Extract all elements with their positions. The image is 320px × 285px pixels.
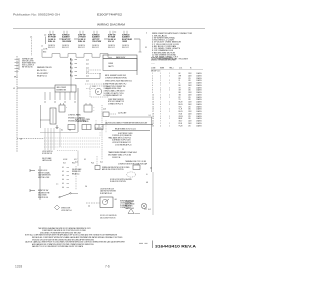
small diamond component xyxy=(55,205,60,210)
wire L2 drop xyxy=(45,37,47,45)
svg-text:TN: TN xyxy=(179,99,181,101)
svg-text:OVEN: OVEN xyxy=(108,63,114,65)
svg-text:RD-6: RD-6 xyxy=(72,163,75,165)
convection motor text xyxy=(118,162,147,165)
svg-text:2-16: 2-16 xyxy=(103,109,106,111)
svg-text:4-14: 4-14 xyxy=(86,75,89,77)
thermal fuse text xyxy=(125,160,146,163)
svg-text:16V: 16V xyxy=(188,109,191,111)
triangle symbol xyxy=(128,209,134,214)
svg-text:12V: 12V xyxy=(188,97,191,99)
svg-text:2-1 BK: 2-1 BK xyxy=(43,49,47,51)
svg-text:4-15: 4-15 xyxy=(86,80,89,82)
svg-text:OR-W: OR-W xyxy=(179,116,184,118)
wire L2 horizontal dashed xyxy=(17,138,44,140)
svg-text:10-2: 10-2 xyxy=(148,209,151,211)
svg-text:12V: 12V xyxy=(188,125,191,127)
svg-text:P-24: P-24 xyxy=(91,163,94,165)
svg-text:PK: PK xyxy=(179,97,181,99)
small box xyxy=(95,166,100,170)
svg-text:21: 21 xyxy=(152,121,154,123)
svg-text:LEFT FRT: LEFT FRT xyxy=(92,39,100,41)
component box: grill element xyxy=(55,85,76,92)
lamp circle xyxy=(141,203,147,209)
svg-text:OVEN LIGHT: OVEN LIGHT xyxy=(125,201,134,203)
connector pin stack P labels xyxy=(70,59,77,77)
component box B2 xyxy=(84,105,92,112)
svg-text:BK-8: BK-8 xyxy=(43,51,46,53)
svg-text:1700-2700W: 1700-2700W xyxy=(92,41,102,43)
svg-text:1200-2500W: 1200-2500W xyxy=(62,41,72,43)
svg-text:120V: 120V xyxy=(188,121,192,123)
harness L bend xyxy=(57,150,78,152)
component box top row 2 xyxy=(62,34,72,43)
svg-text:4-10: 4-10 xyxy=(93,86,96,88)
svg-text:2-6 BK P-4: 2-6 BK P-4 xyxy=(122,45,129,47)
svg-text:10-2: 10-2 xyxy=(100,162,103,164)
EOC text block xyxy=(108,133,133,147)
svg-text:7-6: 7-6 xyxy=(105,264,110,268)
svg-text:16V: 16V xyxy=(188,118,191,120)
svg-text:9 BR BROWN MOTOR: 9 BR BROWN MOTOR xyxy=(152,52,176,54)
wire between top boxes xyxy=(59,38,62,40)
svg-text:17: 17 xyxy=(152,111,154,113)
monitor switch text xyxy=(38,190,49,199)
svg-text:12V: 12V xyxy=(188,87,191,89)
wire to text xyxy=(40,119,50,121)
svg-text:CODE: CODE xyxy=(151,68,155,70)
svg-text:4-12: 4-12 xyxy=(86,67,89,69)
wire from hi-limit to right xyxy=(110,116,152,118)
svg-text:POSITION 2-8: POSITION 2-8 xyxy=(38,197,48,199)
dotted vertical wire center xyxy=(101,105,103,160)
svg-text:BROIL ELEMENT 4000W 240V: BROIL ELEMENT 4000W 240V xyxy=(105,75,126,77)
svg-text:SURF SW: SURF SW xyxy=(48,35,56,37)
svg-text:BK-W: BK-W xyxy=(179,102,184,104)
svg-text:TN-W: TN-W xyxy=(179,125,183,127)
header rule xyxy=(13,28,205,30)
svg-text:120V: 120V xyxy=(188,111,192,113)
svg-text:8-2: 8-2 xyxy=(61,130,63,132)
component box top row 4 xyxy=(92,34,102,43)
component box top row 5 xyxy=(108,35,116,43)
cam inside xyxy=(102,199,107,204)
svg-text:ELECTRONIC OVEN: ELECTRONIC OVEN xyxy=(118,133,132,135)
wire chart table xyxy=(151,68,203,128)
door lock motor text xyxy=(38,170,51,179)
component box top row 6 xyxy=(122,34,133,43)
svg-text:RD-8 9-12: RD-8 9-12 xyxy=(122,47,129,49)
svg-text:RD-8 9-12: RD-8 9-12 xyxy=(48,47,55,49)
dash-dot wire fan xyxy=(86,88,96,90)
wire down from pin comb xyxy=(70,58,72,92)
svg-text:2-6 BK P-4: 2-6 BK P-4 xyxy=(48,45,55,47)
svg-text:6-4: 6-4 xyxy=(62,179,64,181)
svg-text:WIRE: WIRE xyxy=(160,68,164,70)
svg-text:INF SW 8-2 RD: INF SW 8-2 RD xyxy=(22,66,34,68)
svg-text:RD-8 9-12: RD-8 9-12 xyxy=(62,47,69,49)
svg-text:16V: 16V xyxy=(188,90,191,92)
svg-text:GRILL 2800W: GRILL 2800W xyxy=(57,87,67,89)
svg-text:4-8: 4-8 xyxy=(115,199,117,201)
termination mark 1 xyxy=(30,170,35,172)
right vertical wire xyxy=(152,172,154,215)
feeder bus line with connector bumps xyxy=(42,49,112,57)
label row mid xyxy=(63,159,94,165)
svg-text:2-4: 2-4 xyxy=(149,115,151,117)
svg-text:240V: 240V xyxy=(188,85,192,87)
table heading lines xyxy=(151,57,176,65)
svg-text:WIRING SHOWN WITH DOOR CLOSED: WIRING SHOWN WITH DOOR CLOSED xyxy=(102,167,130,169)
dashed interconnect wires xyxy=(86,69,101,71)
svg-text:6-2 Y: 6-2 Y xyxy=(74,159,77,161)
dash marks left of part number xyxy=(139,242,143,244)
svg-text:13: 13 xyxy=(152,102,154,104)
svg-text:E30GF74HPS2: E30GF74HPS2 xyxy=(97,13,122,17)
switch contact drawing xyxy=(60,194,70,198)
pin stack ticks xyxy=(70,58,72,76)
svg-text:+: + xyxy=(66,107,67,109)
transformer box T1 xyxy=(50,108,56,124)
svg-text:2-6 BK P-4: 2-6 BK P-4 xyxy=(108,45,115,47)
wire L1 horizontal xyxy=(17,87,55,89)
cooling fan dashed box xyxy=(90,86,108,97)
svg-text:x x: x x xyxy=(56,184,58,186)
svg-text:LOCK MOTOR 120V: LOCK MOTOR 120V xyxy=(100,189,114,191)
svg-text:W-4: W-4 xyxy=(63,163,66,165)
vert dotted line xyxy=(75,166,77,190)
svg-text:OVEN DOOR: OVEN DOOR xyxy=(61,208,71,210)
oven notes text xyxy=(105,75,127,79)
svg-text:Publication No: 09052940 GH: Publication No: 09052940 GH xyxy=(13,13,60,17)
svg-text:2-2 BK-12: 2-2 BK-12 xyxy=(78,39,85,41)
svg-text:RD-8 9-12: RD-8 9-12 xyxy=(78,47,85,49)
svg-text:2-6 BK P-4: 2-6 BK P-4 xyxy=(78,45,85,47)
svg-text:2-4: 2-4 xyxy=(74,102,76,104)
vertical wire to EOC xyxy=(59,128,61,147)
svg-text:316443410 REV.A: 316443410 REV.A xyxy=(155,244,196,248)
svg-text:LT FRONT: LT FRONT xyxy=(78,37,86,39)
svg-text:INTERLOCK: INTERLOCK xyxy=(72,171,81,173)
svg-text:16V: 16V xyxy=(188,80,191,82)
svg-text:10: 10 xyxy=(152,94,154,96)
svg-text:RD 4-8 SUPPLY: RD 4-8 SUPPLY xyxy=(37,73,48,75)
svg-text:5 Y YELLOW DOOR LOCK: 5 Y YELLOW DOOR LOCK xyxy=(152,44,180,46)
door lock mechanism box xyxy=(100,197,113,208)
svg-text:ELEMENT: ELEMENT xyxy=(62,37,70,39)
svg-text:12V: 12V xyxy=(188,106,191,108)
svg-text:SHOWN IN THE: SHOWN IN THE xyxy=(38,192,49,194)
vertical wire door lock xyxy=(39,166,41,200)
svg-text:SURF SW: SURF SW xyxy=(78,35,86,37)
component box top row 1 xyxy=(48,35,56,43)
svg-text:4-13: 4-13 xyxy=(86,71,89,73)
svg-text:PK-B: PK-B xyxy=(179,123,183,125)
svg-text:ELECTRONIC OVEN: ELECTRONIC OVEN xyxy=(75,119,90,121)
svg-text:COMPONENTS SHOWN IN OFF POSITI: COMPONENTS SHOWN IN OFF POSITION DOOR CL… xyxy=(42,230,87,232)
svg-text:RIGHT FRT: RIGHT FRT xyxy=(62,39,71,41)
small box xyxy=(133,165,140,170)
svg-text:16: 16 xyxy=(152,109,154,111)
svg-text:SWITCH 6-2 BK: SWITCH 6-2 BK xyxy=(38,177,50,179)
svg-text:-D: -D xyxy=(146,174,148,176)
svg-text:LOCK UNIT 9-6: LOCK UNIT 9-6 xyxy=(61,210,72,212)
svg-text:6-6: 6-6 xyxy=(62,187,64,189)
svg-text:23: 23 xyxy=(152,125,154,127)
svg-text:LOCK SWITCH: LOCK SWITCH xyxy=(42,151,52,153)
svg-text:2-6 BK P-4: 2-6 BK P-4 xyxy=(92,45,99,47)
svg-text:MONITOR SW: MONITOR SW xyxy=(38,190,49,192)
lock motor cam text xyxy=(100,189,116,195)
svg-text:16V: 16V xyxy=(188,99,191,101)
svg-text:1318: 1318 xyxy=(15,264,22,268)
sensor text block xyxy=(108,99,124,105)
dashed oval component xyxy=(127,172,136,177)
svg-text:8-2: 8-2 xyxy=(84,159,86,161)
svg-text:240V: 240V xyxy=(188,113,192,115)
svg-text:SGL 9-2: SGL 9-2 xyxy=(108,41,114,43)
svg-text:+: + xyxy=(94,110,95,112)
ground symbol 1 xyxy=(56,125,59,129)
left supply bus wire xyxy=(16,56,18,152)
svg-text:4: 4 xyxy=(146,33,147,35)
wire comb below grill xyxy=(45,92,75,100)
svg-text:L1: L1 xyxy=(13,88,15,90)
monitor switch assembly text xyxy=(120,201,133,210)
svg-text:BK-4 W-2 P-6: BK-4 W-2 P-6 xyxy=(37,70,47,72)
long vertical wire center-left xyxy=(77,88,79,132)
component box B1 xyxy=(59,105,65,112)
terminal marks above boxes xyxy=(49,31,51,34)
svg-text:DOOR LOCK SWITCH SHOWN: DOOR LOCK SWITCH SHOWN xyxy=(110,179,132,181)
svg-text:SURF SW: SURF SW xyxy=(108,35,116,37)
vert dotted line 2 xyxy=(96,156,98,166)
svg-text:4 VI VIOLET OVEN SENSOR: 4 VI VIOLET OVEN SENSOR xyxy=(152,42,182,44)
wire L1 drop xyxy=(31,39,33,57)
vertical wire bundle xyxy=(45,128,54,150)
svg-text:RD-W: RD-W xyxy=(179,104,184,106)
svg-text:RD-8 9-12: RD-8 9-12 xyxy=(92,47,99,49)
svg-text:240V: 240V xyxy=(188,94,192,96)
svg-text:BU-W: BU-W xyxy=(179,111,184,113)
svg-text:ELEMENT: ELEMENT xyxy=(122,37,130,39)
transformer text xyxy=(108,151,137,156)
svg-text:120V: 120V xyxy=(188,92,192,94)
svg-text:6-3: 6-3 xyxy=(62,175,64,177)
svg-text:DOOR LOCK SHOWN IN: DOOR LOCK SHOWN IN xyxy=(100,215,116,217)
svg-text:WOK 2-4 BK P-8: WOK 2-4 BK P-8 xyxy=(22,64,34,66)
EOC label left xyxy=(75,119,90,123)
wire drop right of row xyxy=(139,39,141,52)
svg-text:UNLOCKED POSITION: UNLOCKED POSITION xyxy=(100,218,115,220)
svg-text:6-4: 6-4 xyxy=(69,130,71,132)
label: control panel ground xyxy=(68,114,86,123)
svg-text:14: 14 xyxy=(152,104,154,106)
svg-text:DOOR LOCK: DOOR LOCK xyxy=(38,170,48,172)
svg-text:4-11: 4-11 xyxy=(86,63,89,65)
svg-text:240V: 240V xyxy=(188,104,192,106)
legend block left: warmer zone switch xyxy=(37,66,52,78)
svg-text:3 RD RED L2 240V: 3 RD RED L2 240V xyxy=(152,40,175,42)
svg-text:18: 18 xyxy=(152,113,154,115)
svg-text:120V: 120V xyxy=(188,73,192,75)
svg-text:22: 22 xyxy=(152,123,154,125)
wire stub right of top row xyxy=(134,38,140,40)
svg-text:6-1: 6-1 xyxy=(62,167,64,169)
cooling fan motor circle xyxy=(95,88,101,94)
svg-text:2-2: 2-2 xyxy=(122,149,124,151)
self clean interlock text xyxy=(72,168,81,175)
svg-text:6-2: 6-2 xyxy=(62,171,64,173)
svg-text:4-4 HI-LIMIT: 4-4 HI-LIMIT xyxy=(118,113,127,115)
svg-text:9-2: 9-2 xyxy=(145,47,147,49)
svg-text:GY-B: GY-B xyxy=(179,113,183,115)
oven cavity outline xyxy=(103,58,137,70)
svg-text:2-4: 2-4 xyxy=(88,206,90,208)
svg-text:UNLOCKED: UNLOCKED xyxy=(38,195,47,197)
svg-text:12V: 12V xyxy=(188,116,191,118)
svg-text:20: 20 xyxy=(152,118,154,120)
bake element long box xyxy=(103,55,137,58)
svg-text:2-6: 2-6 xyxy=(85,186,87,188)
small double box lower 1 xyxy=(68,125,75,130)
vertical wire right of EOC xyxy=(151,117,153,172)
svg-text:MF-1: MF-1 xyxy=(14,77,18,79)
svg-text:GN: GN xyxy=(179,94,181,96)
svg-text:L1: L1 xyxy=(41,46,43,48)
svg-text:4-8: 4-8 xyxy=(146,182,148,184)
svg-text:2-4: 2-4 xyxy=(54,102,56,104)
svg-text:ELEMENT BK: ELEMENT BK xyxy=(57,90,66,92)
svg-text:6-5: 6-5 xyxy=(62,183,64,185)
svg-text:4-1 BK: 4-1 BK xyxy=(63,159,67,161)
svg-text:COL: COL xyxy=(179,68,182,70)
door position note xyxy=(102,167,130,171)
door lock switch note xyxy=(110,179,132,183)
svg-text:2-4: 2-4 xyxy=(114,32,116,34)
svg-text:WH: WH xyxy=(179,75,182,77)
wire labels mid column xyxy=(86,59,89,82)
svg-text:19: 19 xyxy=(152,116,154,118)
svg-text:DOOR SW 2-8: DOOR SW 2-8 xyxy=(42,153,52,155)
svg-text:10-2: 10-2 xyxy=(75,162,78,164)
svg-text:240V: 240V xyxy=(188,75,192,77)
svg-text:2 CONVECTION CONVERT 25F: 2 CONVECTION CONVERT 25F xyxy=(104,86,126,88)
svg-text:240V: 240V xyxy=(188,123,192,125)
svg-text:12V: 12V xyxy=(188,78,191,80)
svg-text:2-4: 2-4 xyxy=(64,102,66,104)
svg-text:2-4: 2-4 xyxy=(44,102,46,104)
wire between top boxes xyxy=(74,38,78,40)
svg-text:120V: 120V xyxy=(188,83,192,85)
component box top row 3 xyxy=(78,35,86,43)
svg-text:BU: BU xyxy=(179,85,181,87)
bottom notes paragraph xyxy=(25,227,126,248)
svg-text:YL: YL xyxy=(179,83,181,85)
svg-text:P-30 P-31: P-30 P-31 xyxy=(95,128,102,130)
svg-text:SWITCH 6-8 RR: SWITCH 6-8 RR xyxy=(22,60,34,62)
wire between top boxes xyxy=(104,38,108,40)
svg-text:IN UNLOCK POSITION: IN UNLOCK POSITION xyxy=(110,181,126,183)
lock switch label xyxy=(42,151,52,155)
svg-text:2-6 BK P-4: 2-6 BK P-4 xyxy=(62,45,69,47)
svg-text:- - - -: - - - - xyxy=(151,62,155,64)
self clean latch label xyxy=(42,157,52,162)
svg-text:12: 12 xyxy=(152,99,154,101)
svg-text:THK-1: THK-1 xyxy=(169,68,174,70)
connecting line under ground row xyxy=(40,132,78,134)
svg-text:11: 11 xyxy=(152,97,154,99)
small double box lower 2 xyxy=(82,125,91,130)
comb labels xyxy=(44,102,76,104)
bracket line xyxy=(18,58,20,70)
svg-text:10 GN GREEN GROUND: 10 GN GREEN GROUND xyxy=(152,54,177,56)
svg-text:WIRING DIAGRAM: WIRING DIAGRAM xyxy=(97,23,125,27)
svg-text:GY: GY xyxy=(179,87,181,89)
svg-text:ELEMENT: ELEMENT xyxy=(92,37,100,39)
svg-text:1200W: 1200W xyxy=(122,41,128,43)
svg-text:UNLESS OTHERWISE SPECIFIED: UNLESS OTHERWISE SPECIFIED xyxy=(151,60,176,62)
svg-text:BK: BK xyxy=(179,73,181,75)
svg-text:4-2: 4-2 xyxy=(150,168,152,170)
horizontal dashed harness lines xyxy=(44,138,100,147)
svg-text:120V: 120V xyxy=(188,102,192,104)
svg-text:4-10: 4-10 xyxy=(86,59,89,61)
small component box xyxy=(103,112,109,117)
svg-text:GN-Y: GN-Y xyxy=(179,121,183,123)
notes list top right xyxy=(152,32,193,60)
divider tick xyxy=(152,241,154,249)
wire horizontal lower xyxy=(75,78,100,80)
svg-text:15: 15 xyxy=(152,106,154,108)
svg-text:GROUP 1 2 3: GROUP 1 2 3 xyxy=(151,71,160,73)
dashed wire lower xyxy=(85,83,105,85)
svg-text:+: + xyxy=(94,107,95,109)
dotted verticals right of ground row xyxy=(95,120,97,124)
wire label stack xyxy=(62,167,69,189)
wire stubs left of block xyxy=(15,58,19,60)
svg-text:IS: IS xyxy=(190,68,191,70)
oven light text xyxy=(125,201,135,210)
svg-text:VI-B: VI-B xyxy=(179,106,182,108)
small double box lower 3 xyxy=(95,125,103,130)
legend block left: surface unit switch xyxy=(22,58,37,69)
termination mark 2 xyxy=(30,190,35,192)
oven numbered list xyxy=(104,83,127,98)
wire right side of oven xyxy=(136,58,138,75)
svg-text:RT FRONT: RT FRONT xyxy=(48,37,56,39)
svg-text:CONNECTOR P-14 VI: CONNECTOR P-14 VI xyxy=(108,103,124,105)
svg-text:OVEN TEMP SENSOR: OVEN TEMP SENSOR xyxy=(108,99,124,101)
svg-text:RD-8 9-12: RD-8 9-12 xyxy=(108,47,115,49)
svg-text:DISCONNECT POWER BEFORE SERVIC: DISCONNECT POWER BEFORE SERVICING THE UN… xyxy=(40,232,81,234)
dash-dot lead wire xyxy=(86,202,100,204)
